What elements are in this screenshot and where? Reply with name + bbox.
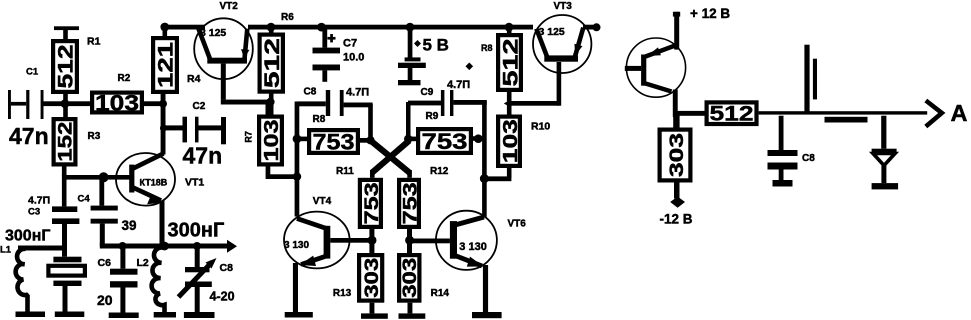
resistor R13 bbox=[333, 255, 383, 301]
wire rail main bbox=[248, 25, 533, 30]
wire VT4 collector net vertical bbox=[295, 102, 300, 217]
capacitor C8 right bbox=[768, 116, 816, 187]
variable capacitor C8 tank bbox=[179, 249, 235, 313]
svg-text:512: 512 bbox=[499, 39, 522, 87]
wire emitter node to 512 bbox=[675, 111, 705, 116]
svg-text:R14: R14 bbox=[431, 288, 450, 299]
wire R3 bottom stub bbox=[62, 164, 67, 176]
power -12V terminal bbox=[660, 180, 693, 226]
svg-text:C1: C1 bbox=[26, 67, 39, 78]
antenna coupling marks bbox=[804, 45, 867, 123]
inductor L2 bbox=[137, 220, 225, 313]
resistor R4 bbox=[153, 38, 200, 92]
wire node A to R2 bbox=[64, 101, 90, 106]
transistor VT4 bbox=[284, 196, 350, 268]
svg-text:5 В: 5 В bbox=[423, 36, 449, 55]
resistor 512 right bbox=[707, 102, 757, 125]
capacitor C6 bbox=[97, 249, 138, 313]
arrow output A bbox=[926, 101, 942, 127]
svg-text:3 130: 3 130 bbox=[459, 241, 487, 253]
wire stub to 303 bbox=[673, 115, 679, 129]
junction R2 net bbox=[159, 100, 167, 108]
svg-text:R11: R11 bbox=[336, 166, 354, 177]
power +5V capacitor bbox=[398, 29, 449, 85]
ground VT4 bbox=[285, 312, 313, 318]
svg-text:C4: C4 bbox=[78, 194, 91, 205]
svg-text:R9: R9 bbox=[426, 111, 439, 122]
wire R4 top stub bbox=[163, 27, 168, 38]
ground L2 bbox=[154, 312, 176, 318]
wire R11-R13 stub bbox=[369, 227, 374, 255]
svg-text:4.7П: 4.7П bbox=[346, 87, 369, 99]
wire VT1 collector net vertical bbox=[161, 94, 166, 155]
svg-text:20: 20 bbox=[97, 292, 113, 308]
svg-text:3 130: 3 130 bbox=[284, 240, 309, 251]
svg-text:C9: C9 bbox=[421, 87, 434, 98]
junction R9 right bbox=[474, 134, 483, 143]
resistor R1 bbox=[53, 36, 100, 92]
wire VT3 output stub bbox=[583, 25, 595, 30]
svg-text:103: 103 bbox=[95, 90, 139, 115]
svg-text:А: А bbox=[951, 100, 968, 126]
resistor R7 bbox=[244, 117, 283, 165]
junction rail +5V bbox=[406, 23, 415, 32]
svg-text:R10: R10 bbox=[531, 121, 550, 133]
svg-text:512: 512 bbox=[55, 45, 78, 89]
svg-text:47n: 47n bbox=[183, 143, 223, 169]
svg-text:C8: C8 bbox=[802, 153, 815, 164]
svg-text:4-20: 4-20 bbox=[210, 290, 235, 304]
ground crystal bbox=[55, 312, 85, 318]
svg-text:C6: C6 bbox=[98, 257, 112, 269]
resistor 303 right bbox=[660, 130, 691, 181]
svg-text:VT2: VT2 bbox=[220, 1, 239, 12]
wire rail left segment bbox=[161, 25, 205, 30]
svg-text:303: 303 bbox=[667, 133, 688, 177]
crystal resonator bbox=[48, 257, 85, 312]
svg-text:300нГ: 300нГ bbox=[168, 220, 225, 242]
svg-text:103: 103 bbox=[261, 120, 283, 162]
junction VT5 base bbox=[405, 236, 414, 245]
svg-text:753: 753 bbox=[362, 182, 383, 224]
junction L2/emitter tap bbox=[160, 242, 169, 251]
wire VT4 base bbox=[330, 238, 372, 243]
junction R8 right bbox=[366, 136, 374, 144]
capacitor C3 bbox=[28, 179, 79, 257]
svg-text:753: 753 bbox=[400, 182, 421, 224]
junction C8 tap bbox=[193, 242, 201, 250]
power +12V terminal bbox=[673, 6, 731, 50]
transistor VT2 bbox=[194, 1, 253, 79]
svg-text:КТ18В: КТ18В bbox=[140, 178, 168, 188]
svg-text:-12 В: -12 В bbox=[660, 212, 693, 227]
junction rail R8 bbox=[505, 23, 514, 32]
svg-text:R2: R2 bbox=[118, 73, 131, 84]
svg-text:+ 12 В: + 12 В bbox=[690, 6, 730, 21]
capacitor C1 bbox=[8, 67, 44, 120]
svg-text:103: 103 bbox=[500, 119, 522, 163]
wire VT3 base corner bbox=[507, 62, 561, 106]
resistor R8 512 right bbox=[481, 29, 522, 90]
svg-text:753: 753 bbox=[313, 129, 355, 154]
svg-text:39: 39 bbox=[122, 218, 137, 233]
resistor R8 753 bbox=[299, 114, 368, 154]
wire VT5 base bbox=[410, 239, 450, 244]
wire C1 to node A bbox=[44, 101, 65, 106]
wire output rail right bbox=[759, 111, 928, 114]
svg-text:4.7П: 4.7П bbox=[28, 195, 50, 207]
svg-text:R6: R6 bbox=[281, 12, 294, 23]
svg-text:47n: 47n bbox=[9, 123, 49, 149]
svg-text:R3: R3 bbox=[88, 131, 101, 142]
wire R2 to collector net bbox=[144, 101, 163, 106]
svg-text:303: 303 bbox=[400, 258, 421, 298]
transistor VT3 bbox=[533, 1, 591, 73]
svg-text:C8: C8 bbox=[220, 262, 234, 274]
resistor R14 bbox=[399, 255, 449, 301]
power bar above R1 bbox=[54, 26, 79, 40]
capacitor C7 bbox=[313, 29, 365, 82]
resistor R10 bbox=[498, 117, 550, 166]
varicap diode right bbox=[872, 116, 899, 190]
svg-text:R13: R13 bbox=[333, 288, 352, 299]
svg-text:C2: C2 bbox=[193, 101, 206, 112]
svg-text:R1: R1 bbox=[87, 36, 101, 48]
svg-text:VT6: VT6 bbox=[508, 219, 527, 230]
svg-text:R8: R8 bbox=[481, 43, 493, 53]
svg-text:VT1: VT1 bbox=[185, 177, 204, 189]
junction R5/R7/VT2base bbox=[266, 98, 274, 106]
svg-text:3 125: 3 125 bbox=[200, 27, 226, 39]
junction VT4 base bbox=[368, 236, 377, 245]
svg-text:152: 152 bbox=[56, 122, 77, 162]
junction C2 tap bbox=[160, 124, 167, 131]
capacitor C9 bbox=[406, 63, 487, 218]
svg-text:C7: C7 bbox=[343, 38, 357, 50]
junction VT3 base node arrow bbox=[504, 99, 511, 107]
wire base net horizontal bbox=[62, 175, 132, 180]
wire VT7 emitter down bbox=[673, 90, 678, 118]
node A vertical wire bbox=[63, 92, 68, 118]
svg-text:R7: R7 bbox=[244, 131, 254, 143]
ground R13 bbox=[361, 303, 388, 319]
transistor VT5 bbox=[436, 211, 526, 270]
resistor R9 753 bbox=[410, 111, 482, 154]
svg-text:512: 512 bbox=[710, 103, 754, 126]
svg-text:3 125: 3 125 bbox=[539, 26, 565, 38]
svg-text:121: 121 bbox=[155, 42, 178, 88]
wire R10 bottom stub bbox=[507, 166, 512, 178]
junction rail R5 bbox=[267, 23, 276, 32]
svg-text:512: 512 bbox=[261, 38, 284, 88]
ground C8 tank bbox=[184, 312, 215, 318]
svg-text:R12: R12 bbox=[430, 166, 449, 177]
svg-text:303: 303 bbox=[362, 258, 383, 298]
junction collector net / R8 bbox=[293, 135, 302, 144]
wire diagonal R8 to R12 bbox=[371, 141, 412, 178]
wire R7 bottom to collector net bbox=[266, 165, 297, 180]
wire VT4 emitter down bbox=[293, 263, 298, 313]
svg-text:4.7П: 4.7П bbox=[447, 79, 470, 91]
junction rail C7 bbox=[317, 23, 326, 32]
capacitor C2 bbox=[166, 101, 227, 144]
wire VT5 collector to R10 bbox=[482, 176, 511, 181]
node A junction bbox=[61, 99, 70, 108]
svg-text:L1: L1 bbox=[0, 245, 12, 256]
arrow output left tank bbox=[227, 240, 237, 253]
ground R14 bbox=[399, 303, 426, 319]
capacitor C4 bbox=[78, 179, 137, 246]
resistor R5 bbox=[260, 29, 284, 115]
wire bottom tank horizontal bbox=[100, 244, 228, 249]
svg-text:VT3: VT3 bbox=[554, 1, 573, 12]
junction R9 left bbox=[404, 135, 412, 143]
resistor R11 bbox=[336, 166, 383, 227]
wire diagonal R9 to R11 bbox=[370, 141, 409, 178]
transistor VT7 emitter follower bbox=[625, 38, 686, 97]
wire R12-R14 stub bbox=[407, 227, 412, 255]
ground VT5 bbox=[472, 312, 502, 318]
svg-text:L2: L2 bbox=[137, 257, 149, 269]
svg-text:10.0: 10.0 bbox=[343, 52, 364, 64]
wire VT1 emitter down bbox=[160, 201, 165, 247]
svg-text:C8: C8 bbox=[304, 87, 317, 98]
terminal dot VT3 output bbox=[593, 23, 601, 31]
junction rail/R4 bbox=[160, 23, 169, 32]
svg-text:753: 753 bbox=[422, 129, 468, 154]
ground C6 bbox=[109, 313, 139, 319]
svg-text:R8: R8 bbox=[313, 114, 326, 125]
svg-text:R4: R4 bbox=[187, 73, 201, 85]
junction base/C4 bbox=[99, 172, 109, 182]
junction VT5 collector node bbox=[480, 174, 489, 183]
wire VT2 base down and corner bbox=[221, 64, 271, 116]
resistor R12 bbox=[399, 166, 449, 227]
wire R8-R10 stub bbox=[507, 90, 512, 116]
junction C6 tap bbox=[119, 242, 127, 250]
inductor L1 bbox=[0, 228, 64, 312]
capacitor C8 mid bbox=[297, 87, 373, 142]
svg-text:300нГ: 300нГ bbox=[5, 228, 50, 245]
ground L1 bbox=[16, 312, 46, 318]
resistor R2 bbox=[92, 73, 142, 115]
svg-text:C3: C3 bbox=[28, 207, 40, 218]
resistor R3 bbox=[54, 119, 101, 164]
wire VT5 emitter down bbox=[483, 265, 488, 313]
junction collector net / R7 bbox=[293, 172, 301, 180]
transistor VT1 bbox=[116, 153, 204, 206]
svg-text:VT4: VT4 bbox=[313, 196, 332, 207]
